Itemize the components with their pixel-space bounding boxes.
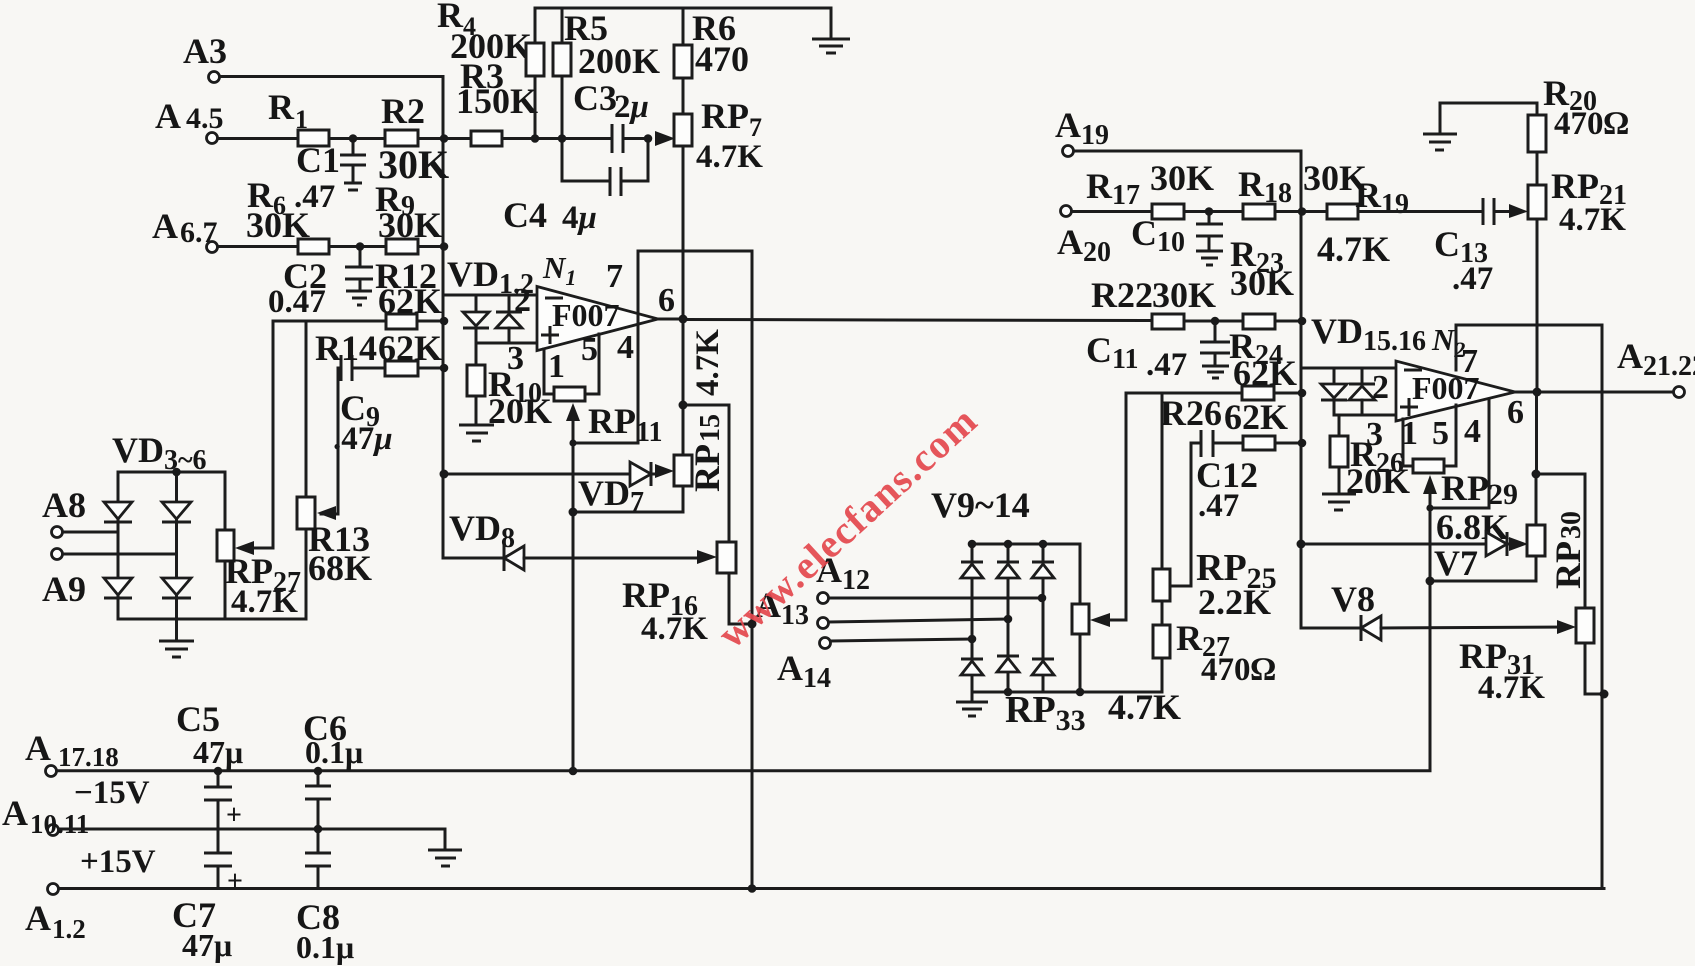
wire V8 row [1301,627,1360,630]
capacitor C2 0.47 [268,247,373,321]
svg-text:F007: F007 [552,297,620,333]
diode VD4 [162,502,191,522]
svg-text:.47: .47 [1198,488,1239,524]
junction dots power rails [214,767,223,776]
wire N2 supply box [1456,325,1602,889]
wire A12 row [829,597,1042,600]
svg-text:5: 5 [1432,415,1449,452]
junction dot VD7 row [440,470,449,479]
capacitor C4 4u lower branch [503,139,648,237]
wire A4.5 row [218,137,298,140]
wire R12 row [273,320,386,323]
ground R10 [459,425,494,441]
junction dot RP16 bottom [748,620,757,629]
junction dots row A6.7 [356,242,365,251]
wire A14 row [831,639,972,641]
svg-text:www.elecfans.com: www.elecfans.com [709,397,986,657]
svg-text:C1: C1 [296,140,340,180]
wire R20 top to ground [1440,103,1537,133]
diode V8 [1331,579,1569,641]
svg-text:A: A [152,206,178,246]
svg-text:62K: 62K [1233,353,1297,393]
svg-text:.47μ: .47μ [333,421,393,457]
wire V7 row [1301,543,1486,546]
svg-text:470: 470 [695,39,749,79]
svg-text:4: 4 [1464,413,1481,450]
wiper RP11 arrow up [566,403,580,771]
capacitor C12 .47 [1196,430,1258,524]
svg-text:N1: N1 [542,250,576,290]
wire R14 to bus [418,367,443,370]
wire bridge left vertical [117,472,120,619]
wire array left column [971,544,974,692]
junction dot N1 output [679,315,688,324]
svg-text:A14: A14 [777,648,831,694]
ground array [956,692,988,716]
svg-text:R22: R22 [1091,275,1153,315]
resistor R26 62K (C12 row) [1243,436,1275,450]
svg-text:A: A [2,793,28,833]
svg-text:30K: 30K [1150,158,1214,198]
svg-text:−15V: −15V [74,775,150,811]
node A17.18 terminal [25,728,119,777]
wire VD8 row [443,557,502,560]
wire A10.11 ground rail [59,829,445,849]
wiper arrow into RP15 [655,464,674,478]
svg-text:VD3~6: VD3~6 [112,430,207,476]
node A14 terminal [777,638,831,695]
potentiometer RP11 [544,334,662,448]
svg-text:C3: C3 [573,78,617,118]
capacitor C11 .47 [1086,321,1230,383]
svg-text:A8: A8 [42,485,86,525]
wire N2 output [1515,391,1673,394]
svg-text:A: A [25,728,51,768]
resistor R12 62K [375,256,442,329]
potentiometer RP16 4.7K [622,542,752,647]
svg-text:4.7K: 4.7K [1317,229,1390,269]
wire A9 to bridge [63,553,177,556]
wire N1 noninverting input [476,342,537,345]
diode VD5 [104,578,132,598]
svg-text:4.7K: 4.7K [690,329,726,396]
svg-text:200K: 200K [450,26,532,66]
svg-text:+15V: +15V [80,844,156,880]
svg-text:R17: R17 [1086,166,1140,211]
resistor R24 62K (feedback row) [1242,386,1274,400]
node A20 terminal [1057,206,1111,269]
resistor R13 68K (trimmer) [297,497,372,619]
ground R20 [1423,134,1457,150]
svg-text:+: + [227,866,243,897]
resistor R27 470ohm [1153,618,1276,692]
wire R23 to bus [1275,320,1301,323]
resistor R5 200K vertical [553,8,660,139]
capacitor C9 .47u [333,355,393,457]
resistor R6 30K (A6.7 row) [298,239,329,254]
capacitor C10 [1131,212,1223,259]
wire N2 noninverting input [1334,414,1396,417]
potentiometer RP27 4.7K [217,472,301,620]
diode VD8 [504,545,698,571]
junction dots RP30 [1532,470,1541,479]
svg-text:R19: R19 [1355,175,1409,220]
svg-text:10.11: 10.11 [30,809,89,839]
junction dots bridge [172,468,181,477]
svg-text:2: 2 [1372,369,1389,406]
diode VD15 [1321,368,1347,415]
junction dots array top [968,540,977,549]
svg-text:+: + [226,800,242,831]
svg-text:A: A [25,898,51,938]
svg-text:A21.22: A21.22 [1617,336,1695,382]
svg-text:4.7K: 4.7K [231,584,298,620]
svg-text:.47: .47 [1452,261,1493,297]
node A4.5 terminal [155,96,224,144]
wiper arrow into RP21 [1509,204,1528,218]
svg-text:V7: V7 [1434,543,1478,583]
wire R2 to R3 [418,137,471,140]
wire left column to RP27 wiper [240,321,273,548]
node A1.2 terminal [25,884,86,945]
svg-text:R18: R18 [1238,164,1292,209]
capacitor C7 47u [172,829,243,963]
svg-text:R2: R2 [381,91,425,131]
wire A6.7 row [218,245,298,248]
svg-text:A: A [155,96,181,136]
junction dots array feeds [1038,594,1047,603]
node A10.11 terminal [2,793,89,839]
svg-text:68K: 68K [308,548,372,588]
diode V13 [997,656,1019,672]
resistor R20 470ohm [1528,73,1629,185]
capacitor C13 .47 [1434,198,1508,297]
resistor R22 30K [1091,275,1216,329]
node A21.22 terminal [1617,336,1695,398]
junction dot RP15 branch [679,401,688,410]
capacitor C5 47u [176,699,243,831]
wire N1 output to junction [658,318,683,321]
wire R1 to R2 [329,137,385,140]
wire N2 output down to RP30 branch [1535,392,1538,474]
ground C10 [1196,251,1223,265]
junction dot N2 output [1533,388,1542,397]
diode VD1 [463,295,489,343]
svg-text:62K: 62K [378,328,442,368]
resistor R6 470 vertical (top) [674,8,749,114]
svg-text:4.5: 4.5 [186,102,224,135]
diode V10 [997,562,1019,578]
diode V11 [1032,562,1054,578]
resistor R14 62K [315,328,442,376]
wire pin4 bracket [573,442,638,445]
svg-text:1.2: 1.2 [52,914,86,944]
svg-text:30K: 30K [378,205,442,245]
wire R22 to R23 [1184,320,1243,323]
capacitor C8 0.1u [296,829,354,965]
wire C9 left lead down to R13 wiper [321,368,341,514]
svg-text:R14: R14 [315,328,377,368]
ground C1 [344,183,362,190]
junction dots N1 output row [1211,317,1220,326]
ground (mid rail) [428,850,462,866]
wiper arrow into RP31 [1557,620,1576,634]
wiper arrow into RP16 [697,550,717,564]
svg-text:7: 7 [606,258,623,295]
svg-text:200K: 200K [578,41,660,81]
svg-text:0.1μ: 0.1μ [305,734,363,770]
wire array right drop to pot [1079,544,1082,604]
wire N1 supply box [638,251,752,889]
resistor R17 30K [1086,158,1214,219]
junction dot bracket [1426,504,1433,511]
wire main vertical bus x443 [442,77,445,559]
svg-text:0.47: 0.47 [268,284,326,320]
potentiometer RP29 [1403,405,1518,511]
wire bridge top [118,471,225,474]
resistor R1 [268,87,329,146]
resistor R18 30K [1238,164,1292,219]
svg-text:R: R [268,87,295,127]
junction dot RP31 bottom [1600,690,1609,699]
svg-text:C5: C5 [176,699,220,739]
potentiometer RP33 pot body [1072,604,1089,692]
node A19 terminal [1055,105,1109,157]
node A12 terminal [816,550,870,604]
wiper arrow into R13 [317,506,336,520]
svg-text:20K: 20K [488,391,552,431]
diode V7 [1434,532,1512,583]
ground C11 [1202,366,1229,378]
potentiometer RP7 4.7K [674,96,763,319]
svg-text:4.7K: 4.7K [696,139,763,175]
svg-text:.47: .47 [1146,347,1187,383]
potentiometer RP25 2.2K [1153,393,1277,625]
node A13 terminal [755,585,829,631]
wire VD7 row [443,473,630,476]
wire R13 top column [305,321,308,497]
wire A3 to bus [220,75,443,78]
svg-text:A9: A9 [42,569,86,609]
svg-text:RP7: RP7 [701,96,762,142]
svg-text:4.7K: 4.7K [1108,687,1181,727]
wire +15V bus A1.2 [59,887,1604,890]
svg-text:4.7K: 4.7K [1478,670,1545,706]
ground bridge [159,619,194,657]
potentiometer RP31 4.7K [1459,608,1604,706]
svg-text:47μ: 47μ [182,927,232,963]
ground R26 [1322,494,1356,510]
wire top rail [535,7,831,10]
diode V14 [1032,659,1054,675]
wire R9 to bus [418,245,443,248]
resistor R23 box [1243,314,1275,329]
wire RP33 wiper vertical to R24 row [1126,393,1242,620]
svg-text:A20: A20 [1057,222,1111,268]
wiper arrow into RP27 [235,541,254,555]
svg-text:C11: C11 [1086,330,1138,375]
wire bridge bottom [118,618,306,621]
potentiometer RP21 4.7K [1528,166,1627,391]
node A8 terminal [42,485,86,538]
svg-text:2μ: 2μ [614,89,649,125]
svg-text:V9~14: V9~14 [931,485,1030,525]
wire R6 to R9 [329,245,386,248]
resistor R9 30K [375,179,442,254]
svg-text:2.2K: 2.2K [1198,582,1271,622]
potentiometer RP15 [573,455,692,512]
wire A20 row [1072,210,1152,213]
svg-text:6.7: 6.7 [180,216,218,249]
svg-text:30K: 30K [1152,275,1216,315]
svg-text:VD15.16: VD15.16 [1311,311,1426,357]
svg-text:RP33: RP33 [1005,689,1086,737]
svg-text:17.18: 17.18 [58,742,119,772]
svg-text:4.7K: 4.7K [1559,202,1626,238]
resistor R4 vertical [526,8,544,139]
wire A13 row [829,619,1008,622]
diode VD6 [162,578,191,598]
ground top right [812,8,850,53]
junction dots row A4.5 [349,134,358,143]
capacitor C1 .47 [294,139,366,216]
wire A8 to bridge [63,531,118,534]
wire R18 to bus [1275,210,1327,213]
svg-text:6: 6 [1507,394,1524,431]
capacitor C3 2u [573,78,650,153]
resistor R26 20K (N2 input) [1330,415,1410,501]
svg-text:5: 5 [581,331,598,368]
wiper arrow into pot from right [1090,613,1126,627]
svg-text:4: 4 [617,329,634,366]
wire N2 inverting input [1301,367,1396,370]
wire branch to RP31 top [1536,474,1585,608]
svg-text:47μ: 47μ [193,734,243,770]
wire R26 to bus [1275,442,1301,445]
resistor R10 20K [467,343,552,431]
wire array right column [1042,544,1045,692]
svg-text:62K: 62K [1224,397,1288,437]
svg-text:6: 6 [658,282,675,319]
svg-text:0.1μ: 0.1μ [296,929,354,965]
diode VD7 [578,462,660,518]
wire diode array top rail [972,543,1080,546]
svg-text:470Ω: 470Ω [1554,106,1629,142]
svg-text:C4: C4 [503,195,547,235]
resistor R3 150K [456,56,538,146]
svg-text:A3: A3 [183,31,227,71]
wire R3 to C3 [502,137,612,140]
wire right bus x1301 [1300,151,1303,628]
junction dots A20 row [1205,207,1214,216]
svg-text:1: 1 [295,105,308,134]
svg-text:A19: A19 [1055,105,1109,151]
wire pin4 bracket N2 [1430,399,1489,508]
wire R19 to C13 [1358,210,1482,213]
resistor R19 4.7K [1317,175,1409,269]
svg-text:7: 7 [1461,343,1478,380]
svg-text:RP15: RP15 [687,414,727,492]
node A9 terminal [42,549,86,610]
wiper arrow into RP30 [1509,537,1528,551]
wire array bottom rail [972,691,1162,694]
diode VD3 [104,502,132,522]
svg-text:30K: 30K [1230,263,1294,303]
potentiometer RP30 [1430,474,1545,581]
wire R24 to bus [1274,392,1301,395]
diode VD16 [1349,368,1375,415]
wire array middle column [1007,544,1010,692]
wire N1 output long run to R22 [683,320,1152,321]
op-amp N1 triangle F007 [537,287,658,351]
svg-text:RP11: RP11 [588,401,662,448]
junction dots bottom rail [1004,688,1013,697]
wire N1 inverting input [443,294,537,297]
svg-text:62K: 62K [378,281,442,321]
junction dot wiper/pin4 [569,439,576,446]
node A3 terminal [183,31,227,83]
wire A19 row [1074,150,1301,153]
wire -15V bus A17.18 [57,769,1430,772]
wiper arrow into RP7 [655,131,675,146]
diode V9 [961,562,983,578]
wire branch to RP16 top [683,405,729,542]
svg-text:RP: RP [1441,468,1489,508]
resistor R2 30K [378,91,449,187]
diode V12 [961,659,983,675]
wire RP7 bottom to RP15 top [682,319,685,455]
ground C2 [346,291,372,305]
svg-text:1: 1 [548,348,565,385]
diode VD2 [496,295,522,343]
wire bridge middle vertical [175,472,178,619]
svg-text:V8: V8 [1331,579,1375,619]
junction dot RP15 bottom [569,508,578,517]
wiper RP29 arrow up [1423,475,1437,770]
wire C12 left lead down to RP25 [1171,443,1201,586]
svg-text:4.7K: 4.7K [641,611,708,647]
svg-text:4μ: 4μ [562,200,597,236]
svg-text:2: 2 [514,282,531,319]
svg-text:470Ω: 470Ω [1201,652,1276,688]
svg-text:RP30: RP30 [1548,511,1588,589]
wire R17 to R18 [1184,210,1243,213]
capacitor C6 0.1u [303,708,363,829]
junction dot V7 row at bus [1297,540,1306,549]
op-amp N2 triangle F007 [1396,361,1515,421]
node A6.7 terminal [152,206,218,253]
wire R12 to bus [417,320,443,323]
svg-text:150K: 150K [456,81,538,121]
svg-text:R26: R26 [1160,393,1222,433]
